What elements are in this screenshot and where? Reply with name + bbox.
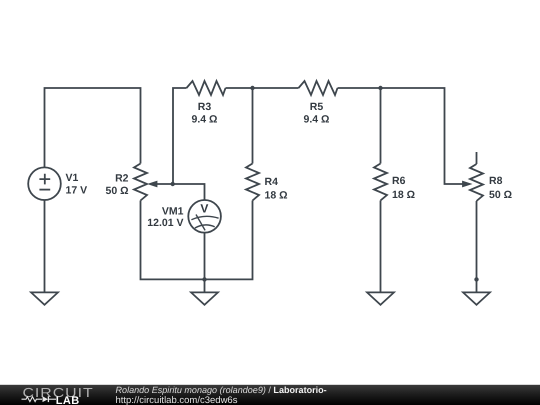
wire: R3 left lead down to wiper junction <box>173 88 187 184</box>
label VM1 value <box>147 206 183 230</box>
wire: R3 right to node A <box>226 87 253 89</box>
junction: wiper node <box>171 182 175 186</box>
svg-text:R3: R3 <box>198 101 212 113</box>
junction: node B <box>378 86 382 90</box>
junction: R8 ground node <box>474 277 478 281</box>
svg-text:V1: V1 <box>66 172 79 184</box>
svg-text:VM1: VM1 <box>162 206 184 218</box>
ground (R8) <box>463 292 490 304</box>
svg-text:R5: R5 <box>310 101 324 113</box>
wire: node B right and down to R8 wiper <box>381 88 464 184</box>
label R8 value <box>489 175 512 201</box>
resistor R4 <box>246 164 259 201</box>
svg-text:9.4 Ω: 9.4 Ω <box>304 113 330 125</box>
wire: R2 bottom to ground node <box>141 201 205 280</box>
footer bar <box>0 385 540 405</box>
svg-text:17 V: 17 V <box>66 184 88 196</box>
label R2 value <box>105 173 128 198</box>
wire: R8 floating top stub <box>476 152 478 164</box>
wire: node B down to R6 top <box>380 88 382 164</box>
svg-text:V: V <box>200 202 208 216</box>
voltage source V1 <box>28 167 61 200</box>
CircuitLab logo: resistor-diode glyph <box>22 396 57 402</box>
svg-text:50 Ω: 50 Ω <box>105 185 128 197</box>
wire: R5 right to node B <box>338 87 381 89</box>
svg-text:18 Ω: 18 Ω <box>392 189 415 201</box>
potentiometer R8 wiper arrow <box>462 181 472 188</box>
ground (V1) <box>31 292 58 304</box>
ground (middle) <box>191 292 218 304</box>
wire: R2 wiper to VM1 top <box>156 184 205 200</box>
label R3 value <box>192 101 218 125</box>
wire: R6 bottom to ground <box>380 201 382 293</box>
svg-text:12.01 V: 12.01 V <box>147 217 183 229</box>
svg-text:R2: R2 <box>115 173 129 185</box>
wire: VM1 bottom to ground node <box>204 233 206 293</box>
label R4 value <box>265 176 288 201</box>
resistor R8 (potentiometer body) <box>470 164 483 201</box>
junction: node A <box>250 86 254 90</box>
ground (R6) <box>367 292 394 304</box>
resistor R5 <box>299 81 338 95</box>
svg-text:R8: R8 <box>489 175 503 187</box>
wire: V1 negative terminal down to ground <box>44 200 46 292</box>
wire: R8 bottom to ground <box>476 201 478 292</box>
svg-text:50 Ω: 50 Ω <box>489 189 512 201</box>
voltmeter VM1 <box>188 200 221 233</box>
svg-text:R6: R6 <box>392 175 406 187</box>
resistor R3 <box>187 81 226 95</box>
potentiometer R2 wiper arrow <box>147 181 157 188</box>
resistor R6 <box>374 164 387 201</box>
label R5 value <box>304 101 330 125</box>
label R6 value <box>392 175 415 201</box>
wire: node A down to R4 top <box>252 88 254 164</box>
svg-text:LAB: LAB <box>56 395 80 405</box>
junction: ground node <box>202 277 206 281</box>
resistor R2 (potentiometer body) <box>134 164 147 201</box>
svg-text:http://circuitlab.com/c3edw6s: http://circuitlab.com/c3edw6s <box>116 395 238 405</box>
svg-text:R4: R4 <box>265 176 279 188</box>
wire: ground node to R4 bottom <box>205 201 253 280</box>
svg-text:18 Ω: 18 Ω <box>265 189 288 201</box>
wire: node A to R5 left <box>253 87 299 89</box>
svg-text:Rolando Espiritu monago (rolan: Rolando Espiritu monago (rolandoe9) / La… <box>116 385 327 395</box>
label V1 value <box>66 172 88 196</box>
svg-text:9.4 Ω: 9.4 Ω <box>192 113 218 125</box>
wire: V1 positive terminal up, top rail, down to R2 top <box>45 88 141 167</box>
